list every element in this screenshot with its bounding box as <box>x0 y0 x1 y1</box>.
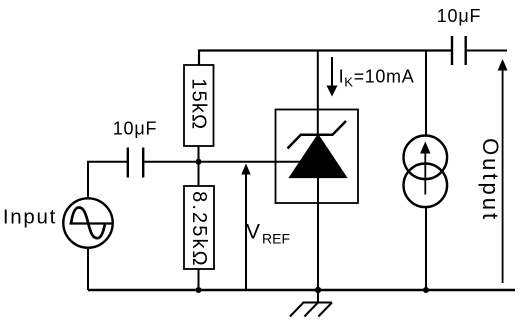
wire right branch from top rail to current source <box>425 51 427 137</box>
wire from top rail down to U1 cathode <box>317 51 319 137</box>
svg-text:10μF: 10μF <box>437 6 482 26</box>
resistor R1 15k box <box>184 65 214 146</box>
wire from C2 right plate to output node <box>467 50 507 52</box>
svg-text:V: V <box>246 221 260 244</box>
wire mid: C1 right plate to node A and U1 ref <box>144 161 305 163</box>
wire input bottom: source to bottom rail <box>87 248 89 291</box>
svg-text:15kΩ: 15kΩ <box>188 78 210 130</box>
current source I1 bottom circle <box>404 164 448 208</box>
resistor R2 8.25k box <box>184 186 214 269</box>
voltage source V1 sine wave <box>71 208 105 239</box>
junction dot current source at rail <box>423 287 429 293</box>
svg-text:10μF: 10μF <box>113 119 158 139</box>
wire bottom rail <box>88 289 515 291</box>
wire from current source bottom to bottom rail <box>425 207 427 290</box>
svg-text:Output: Output <box>478 138 503 222</box>
svg-text:REF: REF <box>262 231 290 247</box>
wire input top: source to C1 <box>88 162 127 199</box>
current source I1 arrow <box>424 152 426 195</box>
op-amp U1 cathode bar with hooks <box>288 121 347 149</box>
capacitor C1 left plate <box>127 148 129 178</box>
junction dot U1 anode at rail <box>315 287 321 293</box>
capacitor C2 left plate <box>451 36 453 65</box>
capacitor C1 right plate <box>142 148 144 178</box>
wire top rail <box>199 51 451 66</box>
arrow IK <box>331 57 333 87</box>
junction dot R2 bottom <box>196 287 202 293</box>
svg-text:Input: Input <box>3 206 57 229</box>
wire R1 bottom to R2 top through node A <box>198 146 200 186</box>
op-amp U1 triangle <box>289 135 346 178</box>
voltage source V1 axis line <box>70 222 113 224</box>
svg-text:8.25kΩ: 8.25kΩ <box>188 191 210 267</box>
capacitor C2 right plate <box>465 36 467 65</box>
op-amp U1 shunt regulator box <box>276 110 359 204</box>
wire U1 anode to bottom rail <box>317 177 319 290</box>
arrow Output <box>502 68 504 283</box>
current source I1 top circle <box>404 136 448 180</box>
arrow VREF <box>245 172 247 290</box>
ground <box>317 290 319 303</box>
wire R2 bottom to bottom rail <box>198 269 200 290</box>
node A junction dot (between resistors) <box>196 159 202 165</box>
voltage source V1 circle <box>63 198 112 247</box>
